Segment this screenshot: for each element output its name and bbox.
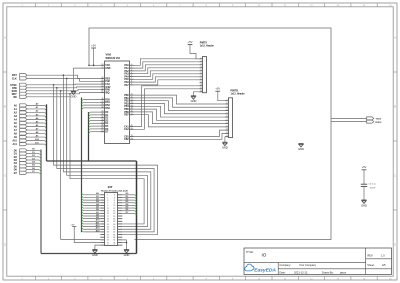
svg-text:20: 20 — [101, 64, 103, 66]
VIA pin 14 PB4 — [124, 104, 133, 108]
svg-text:13: 13 — [131, 102, 133, 104]
VIA pin 28 D5 — [100, 125, 109, 128]
wire bus to EXP A12 — [82, 224, 101, 227]
svg-text:2: 2 — [201, 60, 202, 62]
wire VIA GND — [74, 68, 101, 91]
svg-text:30: 30 — [101, 119, 103, 121]
VIA pin 6 PA4 — [124, 75, 133, 78]
svg-text:GND: GND — [92, 253, 98, 257]
svg-text:Date:: Date: — [280, 271, 286, 274]
svg-text:1.0: 1.0 — [381, 253, 385, 257]
wire PA4 to PORTA — [134, 71, 200, 77]
EXP pin 8 — [114, 203, 123, 205]
EXP pin 37 — [100, 242, 109, 244]
svg-text:PA3: PA3 — [124, 73, 129, 76]
net port RST — [12, 74, 27, 78]
svg-text:+5V: +5V — [362, 165, 367, 169]
svg-text:PB3: PB3 — [124, 103, 129, 105]
VIA pin 25 PH2 — [100, 80, 110, 83]
wire PA7 to PORTA — [134, 80, 200, 85]
svg-text:4/5: 4/5 — [382, 263, 386, 267]
svg-text:7: 7 — [131, 78, 132, 80]
wire CB2 to PORTB — [134, 133, 225, 139]
EXP pin 30 — [113, 232, 122, 234]
VIA pin 17 PB7 — [124, 113, 133, 116]
wire bus to EXP A2 — [82, 198, 101, 201]
wire signal to EXP — [54, 85, 158, 235]
VIA pin 40 CA1 — [124, 124, 134, 128]
wire D1 to bus — [27, 152, 41, 155]
svg-text:6: 6 — [201, 72, 202, 74]
connector EXP Header-Female 2x20 — [105, 193, 118, 246]
svg-text:32: 32 — [101, 114, 103, 116]
wire A10 to bus — [27, 138, 47, 142]
connector PORTB 1x12 header — [229, 98, 233, 138]
svg-text:+5V: +5V — [91, 43, 96, 47]
svg-text:1: 1 — [201, 57, 202, 59]
EXP pin 29 — [100, 232, 109, 234]
svg-text:PB4: PB4 — [124, 105, 129, 108]
VIA pin 30 D3 — [100, 119, 109, 122]
svg-text:RS3: RS3 — [105, 108, 110, 110]
wire R/W to VIA pin — [27, 86, 100, 89]
svg-text:11: 11 — [200, 87, 202, 89]
net port SYNC — [10, 83, 27, 87]
wire CLK to VIA PHI2 — [27, 78, 100, 81]
net flag RXD0 — [367, 120, 383, 124]
svg-text:PB1: PB1 — [124, 98, 129, 100]
PORTB pin 9 — [225, 125, 229, 127]
net port D2 — [14, 155, 27, 159]
svg-text:CA1: CA1 — [124, 125, 129, 128]
svg-text:33: 33 — [101, 111, 103, 113]
wire PORTB pin12 to ground — [224, 137, 226, 143]
svg-text:14: 14 — [113, 210, 115, 213]
wire +5V rail loop (top/right/bottom) — [89, 28, 331, 240]
svg-text:GND: GND — [361, 203, 367, 207]
svg-text:19: 19 — [131, 138, 133, 140]
wire A2 to bus — [27, 110, 47, 114]
wire PB2 to PORTB — [134, 101, 225, 111]
wire A3 to bus — [27, 113, 47, 117]
wire bus to VIA RS3 — [82, 108, 101, 110]
svg-text:IO: IO — [262, 253, 267, 258]
svg-text:8: 8 — [201, 78, 202, 80]
svg-text:+5V: +5V — [215, 87, 220, 91]
ground at PORTB — [222, 142, 228, 149]
PORTA pin 12 — [200, 90, 203, 92]
wire A11 to bus — [27, 141, 47, 145]
wire bus to EXP A5 — [82, 205, 101, 208]
junction R/W branch — [56, 87, 58, 89]
wire PB0 to PORTB — [134, 95, 225, 104]
EXP pin 36 — [113, 240, 122, 242]
wire PB5 to PORTB — [134, 109, 225, 120]
wire PA0 to PORTA — [134, 59, 200, 66]
EXP pin 27 — [100, 229, 109, 231]
EXP pin 31 — [100, 234, 109, 236]
wire PB3 to PORTB — [134, 104, 225, 114]
svg-text:9: 9 — [201, 81, 202, 83]
svg-text:GND: GND — [124, 253, 130, 257]
wire EXP D7 to bus — [122, 212, 136, 215]
svg-text:9: 9 — [227, 125, 228, 127]
svg-text:10: 10 — [131, 94, 133, 96]
VIA pin 33 D0 — [100, 111, 109, 114]
EXP pin 12 — [113, 208, 122, 210]
wire bus to EXP A0 — [82, 192, 101, 195]
svg-text:CB2: CB2 — [124, 139, 129, 141]
svg-text:3: 3 — [131, 67, 132, 69]
PORTB pin 4 — [225, 108, 229, 111]
VIA pin 19 CB2 — [124, 138, 134, 141]
svg-text:CS1: CS1 — [105, 84, 110, 86]
VIA pin 9 PA7 — [124, 84, 133, 87]
wire D5 to bus — [27, 165, 41, 168]
wire SOB to VIA pin — [27, 90, 100, 91]
EXP pin 4 — [114, 196, 123, 199]
svg-text:18: 18 — [131, 135, 133, 137]
svg-text:P0RTB: P0RTB — [231, 90, 239, 92]
net port D0 — [14, 149, 27, 153]
wire CA2 to PORTA — [134, 89, 200, 130]
EXP pin 1 — [100, 195, 108, 197]
PORTB pin 6 — [225, 116, 229, 118]
VIA pin 21 IRQ — [100, 91, 109, 94]
VIA pin 23 /CS2 — [100, 86, 111, 89]
wire bus to VIA RS1 — [82, 102, 101, 104]
VIA pin 27 D6 — [100, 128, 109, 131]
svg-text:26: 26 — [101, 130, 103, 132]
ground at EXP left — [92, 250, 98, 257]
svg-text:Drawn By:: Drawn By: — [322, 271, 334, 274]
VIA pin 2 PA0 — [124, 64, 133, 67]
net port A11 — [13, 143, 27, 147]
svg-text:W65C22 VIA: W65C22 VIA — [106, 57, 121, 60]
svg-text:16: 16 — [131, 111, 133, 113]
svg-text:GND: GND — [191, 99, 197, 103]
wire A9 to bus — [27, 134, 47, 138]
PORTA pin 4 — [200, 65, 203, 68]
svg-text:1x12_Header: 1x12_Header — [200, 46, 214, 48]
wire EXP D2 to bus — [122, 199, 136, 202]
wire EXP pin40 to ground — [122, 242, 126, 244]
net port A6 — [14, 125, 27, 129]
date row — [280, 270, 347, 274]
VIA pin 32 D1 — [100, 114, 109, 117]
svg-text:C0 0.1u: C0 0.1u — [369, 184, 377, 186]
wire PA6 to PORTA — [134, 77, 200, 82]
PORTA pin 7 — [200, 75, 203, 77]
svg-text:9: 9 — [131, 84, 132, 86]
svg-text:EasyEDA: EasyEDA — [254, 267, 276, 273]
svg-text:39: 39 — [131, 128, 133, 130]
VIA pin 36 RS2 — [100, 104, 110, 107]
svg-text:+5V: +5V — [70, 224, 74, 226]
title text — [246, 251, 267, 258]
junction SYNC branch — [53, 84, 55, 86]
company row — [280, 263, 317, 267]
wire bus to VIA RS0 — [82, 100, 101, 102]
net port SOB — [12, 89, 27, 93]
EXP pin 19 — [100, 218, 109, 220]
EXP pin 15 — [100, 213, 109, 215]
net port D5 — [14, 165, 27, 169]
wire EXP pin36 to ground — [122, 240, 126, 250]
wire bus to VIA RS2 — [82, 105, 101, 107]
ground under C0 — [361, 200, 367, 207]
svg-text:A11: A11 — [13, 143, 18, 146]
svg-text:23: 23 — [101, 86, 103, 88]
wire A7 to bus — [27, 127, 47, 131]
EXP pin 26 — [113, 226, 122, 228]
svg-text:22: 22 — [101, 88, 103, 90]
wire RDY to VIA pin — [27, 93, 100, 94]
svg-text:PA4: PA4 — [124, 75, 129, 78]
net flag TXD0 — [367, 117, 382, 120]
PORTA pin 8 — [200, 78, 203, 80]
svg-text:RS2: RS2 — [105, 105, 110, 107]
net port D3 — [14, 158, 27, 162]
svg-text:21: 21 — [101, 91, 103, 93]
svg-text:RES: RES — [105, 78, 110, 80]
net port A7 — [14, 128, 27, 132]
EXP pin 28 — [113, 229, 122, 231]
EXP pin 6 — [114, 200, 123, 202]
EXP pin 13 — [100, 211, 109, 213]
wire A6 to bus — [27, 124, 47, 128]
wire +5V to EXP pin37 — [74, 227, 100, 243]
EXP pin 2 — [114, 195, 123, 197]
svg-text:11: 11 — [226, 132, 228, 134]
PORTA pin 10 — [200, 84, 203, 86]
value label C0 0.1uF — [369, 184, 377, 190]
net port A10 — [12, 139, 27, 143]
address bus A — [46, 104, 48, 161]
svg-text:4: 4 — [201, 65, 202, 68]
svg-text:TXD0: TXD0 — [376, 118, 382, 120]
bus ring right vertical — [136, 161, 138, 254]
wire PB7 to PORTB — [134, 115, 225, 127]
svg-text:2: 2 — [131, 64, 132, 66]
VIA pin 8 PA6 — [124, 81, 133, 84]
svg-text:1x12_Header: 1x12_Header — [231, 94, 245, 96]
EXP pin 34 — [113, 236, 122, 239]
svg-text:Company:: Company: — [280, 264, 292, 267]
PORTB pin 7 — [225, 119, 229, 121]
svg-text:PB2: PB2 — [124, 101, 129, 103]
EXP pin 20 — [113, 218, 122, 220]
svg-text:17: 17 — [131, 113, 133, 115]
net port A8 — [14, 132, 27, 136]
EXP pin 23 — [100, 224, 109, 226]
sheet cell — [367, 263, 386, 267]
wire bus to EXP A1 — [82, 195, 101, 198]
wire D7 to bus — [27, 171, 41, 174]
svg-text:2: 2 — [227, 103, 228, 105]
wire D6 to bus — [27, 168, 41, 171]
svg-text:PB6: PB6 — [124, 112, 129, 114]
wire BE stub — [27, 96, 70, 98]
svg-text:27: 27 — [101, 128, 103, 130]
VIA pin 5 PA3 — [124, 72, 133, 75]
wire to TXD0 flag — [331, 117, 367, 119]
wire VIA D7 to bus — [89, 132, 101, 134]
wire PB1 to PORTB — [134, 98, 225, 107]
net port A1 — [14, 107, 27, 111]
svg-text:5: 5 — [201, 69, 202, 71]
svg-text:28: 28 — [101, 125, 103, 127]
svg-text:4: 4 — [114, 196, 115, 199]
VIA pin 26 D7 — [100, 130, 109, 133]
PORTB pin 12 — [225, 135, 229, 137]
EXP pin 25 — [100, 226, 109, 228]
svg-text:6: 6 — [131, 75, 132, 77]
EXP pin 21 — [100, 221, 109, 223]
wire EXP D6 to bus — [122, 209, 136, 212]
wire signal to EXP — [70, 94, 144, 224]
VIA pin 15 PB5 — [124, 108, 133, 111]
svg-text:5: 5 — [131, 72, 132, 74]
wire PB4 to PORTB — [134, 106, 225, 117]
svg-text:2021-12-12: 2021-12-12 — [294, 270, 308, 274]
wire A0 to bus — [27, 103, 47, 107]
wire VIA D0 to bus — [89, 112, 101, 114]
bus VIA data segment — [88, 112, 90, 161]
EXP pin 17 — [100, 216, 109, 218]
net port RDY — [12, 92, 27, 96]
EXP pin 22 — [113, 221, 122, 223]
wire CA1 to PORTA — [134, 86, 200, 127]
EXP pin 18 — [113, 216, 122, 218]
svg-text:CB1: CB1 — [124, 136, 129, 138]
svg-text:TITLE:: TITLE: — [246, 251, 254, 254]
wire CB1 to PORTB — [134, 130, 225, 136]
svg-text:10: 10 — [226, 129, 228, 131]
PORTB pin 3 — [225, 106, 229, 108]
junction EXP right ground — [126, 242, 128, 244]
PORTA pin 1 — [200, 57, 203, 59]
VIA pin 13 PB3 — [124, 102, 133, 105]
rev cell — [368, 253, 386, 257]
junction VCC — [93, 65, 95, 67]
svg-text:PB5: PB5 — [124, 109, 129, 111]
svg-text:100nF: 100nF — [370, 188, 377, 190]
PORTB pin 2 — [225, 103, 229, 105]
wire bus to EXP A6 — [82, 208, 101, 211]
wire bus to EXP A4 — [82, 203, 101, 206]
svg-text:P0RTA: P0RTA — [200, 41, 208, 44]
EXP pin 14 — [113, 210, 122, 213]
svg-text:15: 15 — [131, 108, 133, 110]
wire A1 to bus — [27, 106, 47, 110]
connector PORTA 1x12 header — [203, 57, 207, 93]
junction CLK branch — [66, 78, 68, 80]
data bus vertical — [40, 150, 42, 254]
wire +5V to VIA VCC — [93, 48, 95, 65]
wire EXP pin39 to ground — [95, 245, 100, 249]
net port A0 — [14, 104, 27, 108]
wire EXP D0 to bus — [122, 193, 136, 196]
svg-text:24: 24 — [113, 223, 115, 226]
svg-text:EXP: EXP — [108, 187, 113, 189]
ground at EXP right — [124, 250, 130, 257]
net port BE — [13, 95, 27, 99]
PORTA pin 3 — [200, 63, 203, 65]
svg-text:Sheet:: Sheet: — [367, 264, 375, 267]
svg-text:4: 4 — [131, 69, 132, 72]
svg-text:34: 34 — [101, 76, 103, 79]
junction RDY branch — [69, 93, 71, 95]
wire PA5 to PORTA — [134, 74, 200, 80]
svg-text:10: 10 — [200, 84, 202, 86]
bus ring horizontal — [47, 160, 137, 162]
net port A3 — [14, 114, 27, 118]
capacitor C0 — [361, 184, 367, 186]
EXP pin 35 — [100, 240, 109, 242]
net port D4 — [14, 162, 27, 166]
VIA pin 37 RS1 — [100, 101, 110, 104]
wire bus to EXP A8 — [82, 213, 101, 216]
svg-text:Header-Female-2.54_2x20: Header-Female-2.54_2x20 — [101, 189, 129, 192]
svg-text:7: 7 — [201, 75, 202, 77]
wire PA2 to PORTA — [134, 65, 200, 71]
wire D2 to bus — [27, 155, 41, 158]
bus ring bottom — [41, 253, 137, 255]
wire C0 to ground — [363, 186, 365, 200]
svg-text:3: 3 — [201, 63, 202, 65]
svg-text:4: 4 — [227, 108, 228, 111]
junction SOB branch — [60, 90, 62, 92]
net port CLK — [12, 77, 27, 81]
VIA pin 31 D2 — [100, 116, 109, 119]
PORTA pin 5 — [200, 69, 203, 71]
VIA pin 16 PB6 — [124, 111, 133, 114]
wire +5V to PORTB pin1 — [218, 91, 225, 101]
wire PORTA pin12 to ground — [194, 92, 200, 96]
svg-text:GND: GND — [298, 147, 304, 151]
svg-text:39: 39 — [107, 245, 109, 247]
net port A2 — [14, 111, 27, 115]
svg-text:11: 11 — [131, 97, 133, 99]
svg-text:GND: GND — [222, 146, 228, 150]
svg-text:37: 37 — [101, 101, 103, 103]
net port A5 — [14, 121, 27, 125]
svg-text:1: 1 — [227, 99, 228, 101]
svg-text:24: 24 — [101, 82, 103, 85]
wire A5 to bus — [27, 120, 47, 124]
wire VIA D2 to bus — [89, 118, 101, 120]
VIA pin 4 PA2 — [124, 69, 133, 73]
PORTB pin 1 — [225, 99, 229, 101]
net port A9 — [14, 135, 27, 139]
junction at VCC rail — [88, 65, 90, 67]
VIA pin 12 PB2 — [124, 99, 133, 102]
svg-text:+5V: +5V — [188, 40, 193, 44]
wire +5V to PORTA pin1 — [190, 44, 200, 58]
VIA pin 38 RS0 — [100, 98, 110, 101]
EXP pin 9 — [100, 205, 108, 207]
wire PA1 to PORTA — [134, 62, 200, 68]
svg-text:8: 8 — [227, 122, 228, 124]
power +5V for C0 — [362, 165, 367, 170]
wire D3 to bus — [27, 158, 41, 161]
EasyEDA logo — [245, 264, 277, 273]
wire A4 to bus — [27, 117, 47, 121]
EXP pin 32 — [113, 234, 122, 236]
PORTB pin 8 — [225, 122, 229, 124]
power +5V at PORTB — [215, 87, 220, 92]
